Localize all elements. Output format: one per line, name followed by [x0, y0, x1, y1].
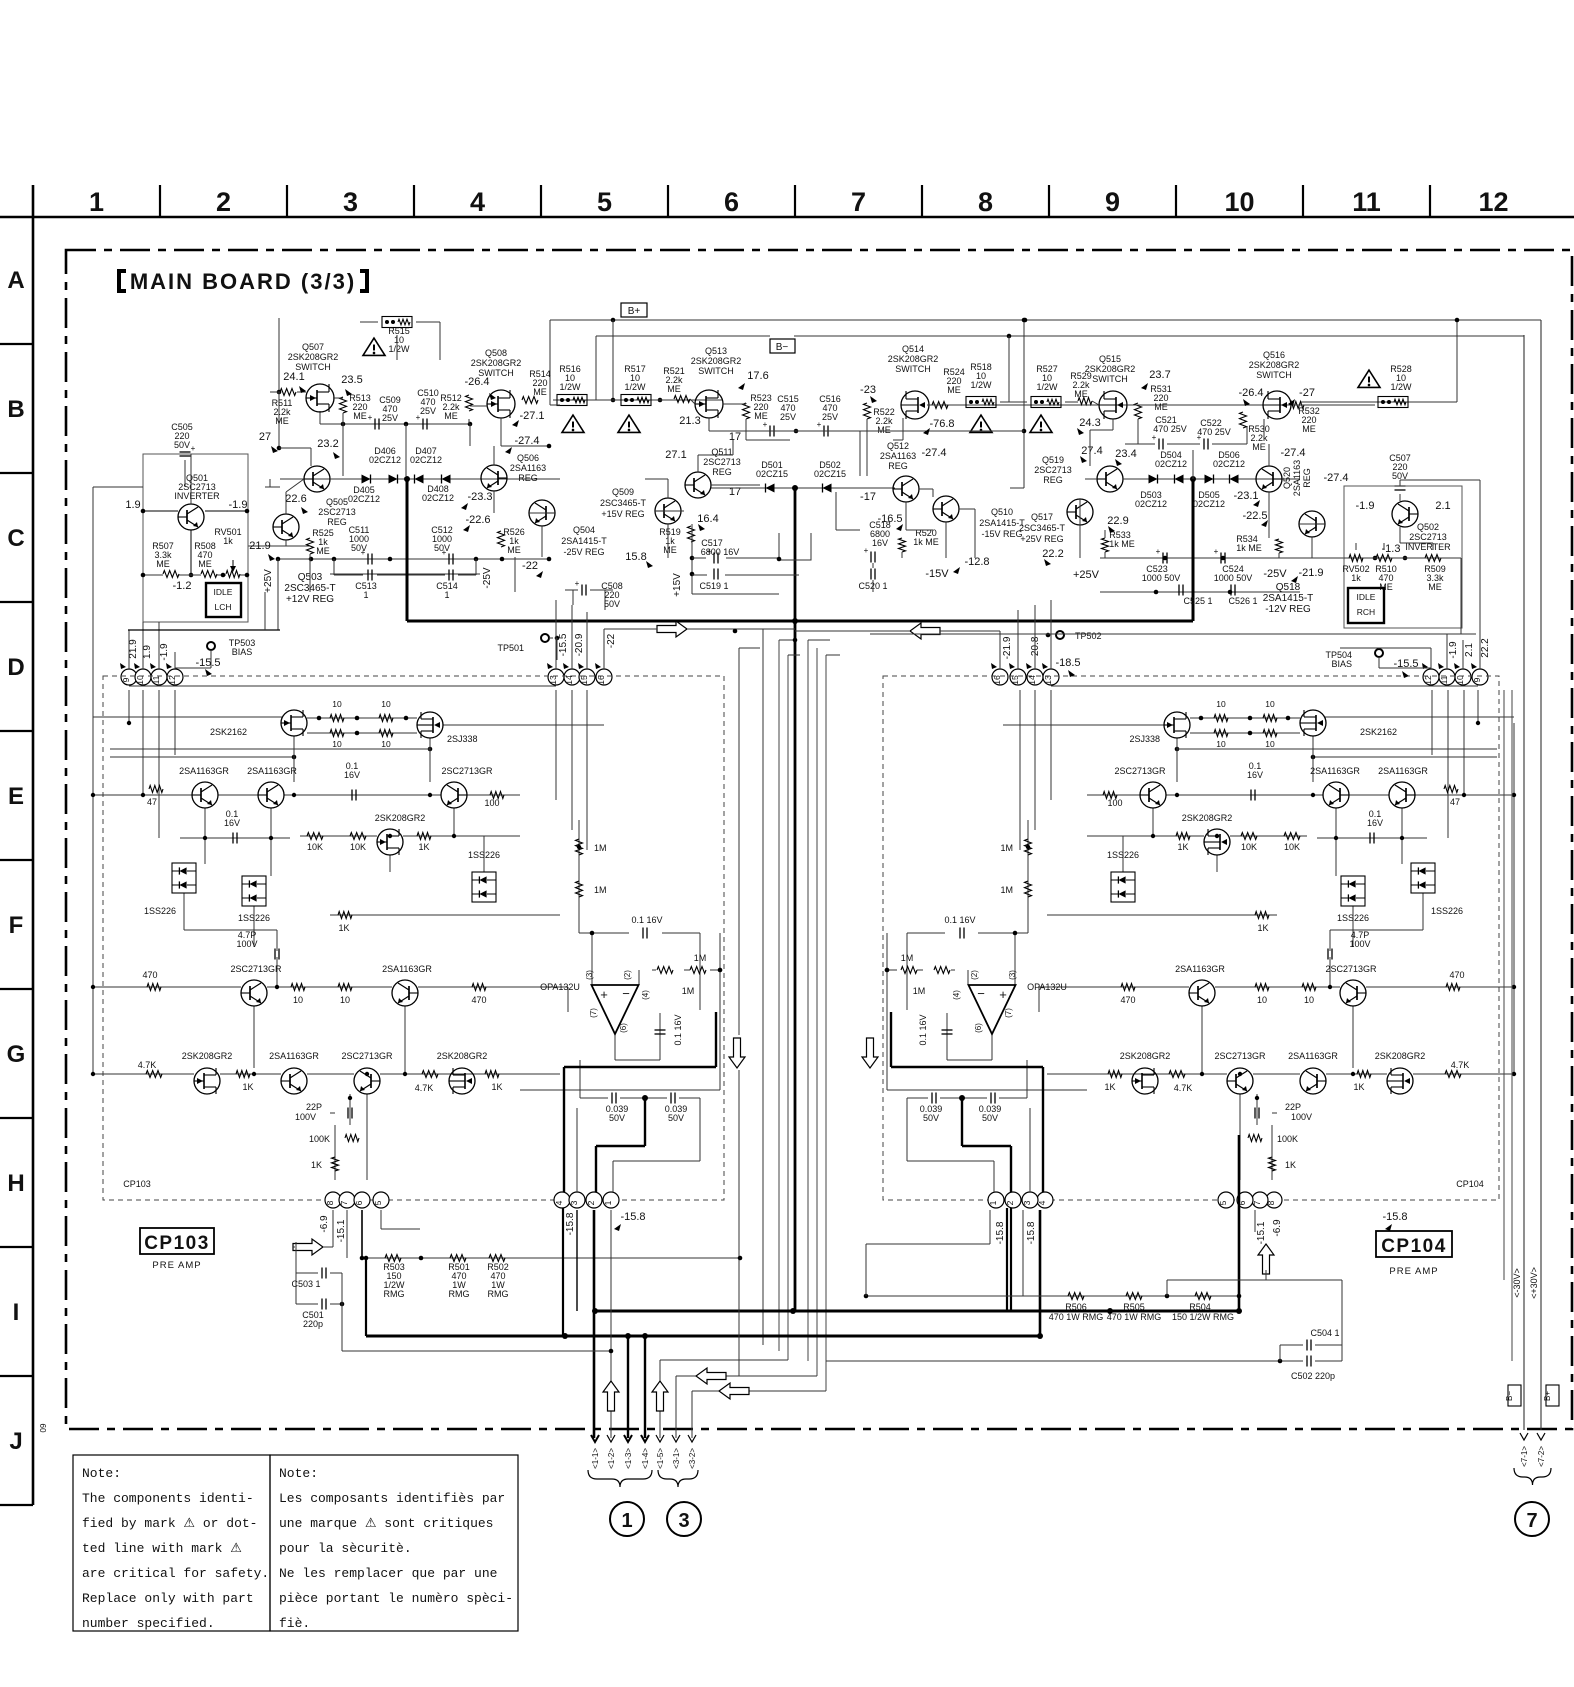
svg-text:1000 50V: 1000 50V	[1214, 573, 1253, 583]
transistor Q511	[625, 431, 741, 563]
svg-text:SWITCH: SWITCH	[895, 364, 931, 374]
transistor Q513	[691, 346, 769, 418]
wire thick mid rail	[407, 618, 1193, 624]
wire v x407 thick	[404, 476, 410, 621]
svg-text:1: 1	[603, 1200, 613, 1205]
svg-text:2SK208GR2: 2SK208GR2	[288, 352, 339, 362]
wire right fuse row	[1000, 401, 1099, 405]
label +30V	[1529, 1267, 1539, 1299]
label -30V	[1512, 1268, 1522, 1298]
resistor 1K mid	[338, 912, 352, 934]
svg-text:50V: 50V	[609, 1113, 625, 1123]
resistor r10b (R)	[1214, 699, 1228, 722]
wire thick 0039 jog L	[596, 1098, 645, 1192]
svg-text:4: 4	[554, 1200, 564, 1205]
svg-text:50V: 50V	[351, 543, 367, 553]
svg-text:2SK208GR2: 2SK208GR2	[1120, 1051, 1171, 1061]
potentiometer RV501	[214, 527, 241, 578]
mosfet 2SK208GR2 top	[375, 813, 426, 855]
svg-text:2SJ338: 2SJ338	[1129, 734, 1160, 744]
svg-text:-27: -27	[1299, 387, 1315, 399]
wire q505 links	[286, 479, 336, 592]
resistor R510	[1375, 555, 1397, 593]
connector CP104 pins 8-5	[1218, 1192, 1282, 1208]
wire center loop box	[779, 533, 811, 560]
resistor R504	[1172, 1293, 1234, 1323]
svg-text:1SS226: 1SS226	[144, 906, 176, 916]
wire arrow rail left	[604, 628, 795, 630]
svg-text:REG: REG	[1043, 475, 1063, 485]
capacitor C525	[1179, 585, 1213, 607]
resistor 10 f	[338, 984, 352, 1006]
row ruler letters A-J	[7, 267, 26, 1455]
svg-text:R504: R504	[1189, 1302, 1211, 1312]
label CP104 small	[1456, 1179, 1484, 1189]
svg-text:22.2: 22.2	[1480, 638, 1491, 658]
fusible resistor R517	[621, 364, 651, 406]
svg-text:A: A	[7, 267, 24, 294]
svg-text:TP502: TP502	[1075, 631, 1102, 641]
svg-text:ME: ME	[353, 411, 367, 421]
label CP103 box	[140, 1228, 214, 1271]
svg-text:PRE AMP: PRE AMP	[1389, 1266, 1438, 1277]
svg-text:2SC2713: 2SC2713	[703, 457, 741, 467]
box IDLE RCH	[1348, 588, 1384, 623]
wire thick v366	[365, 1258, 367, 1336]
wire right q514 gate	[893, 405, 940, 440]
label -25V r	[1263, 568, 1287, 580]
wire v x1193 thick	[1190, 476, 1196, 621]
svg-text:-18.5: -18.5	[1055, 657, 1080, 669]
wire thick v1007	[1006, 1208, 1008, 1311]
svg-text:+: +	[1152, 433, 1157, 442]
svg-text:0.1 16V: 0.1 16V	[631, 915, 662, 925]
wire pin7 drop	[346, 1210, 348, 1258]
transistor Q505a	[304, 466, 330, 492]
capacitor 22P 100V (R)	[1255, 1102, 1312, 1122]
svg-text:are critical for safety.: are critical for safety.	[82, 1566, 269, 1581]
wire 0.039 rail (R)	[907, 1060, 1027, 1101]
label -21.9 r	[1298, 567, 1323, 579]
wire thick v1040	[1037, 1210, 1043, 1339]
wire top rail right switch row	[940, 404, 1300, 406]
svg-text:470: 470	[471, 995, 486, 1005]
wire low resistor rail	[364, 1256, 743, 1261]
svg-text:0.1 16V: 0.1 16V	[944, 915, 975, 925]
svg-text:25V: 25V	[382, 413, 398, 423]
svg-text:1K: 1K	[338, 923, 349, 933]
svg-text:REG: REG	[327, 517, 347, 527]
svg-text:-22.6: -22.6	[465, 514, 490, 526]
wire bus v2	[762, 629, 764, 1345]
wire thin 0039 jog R	[907, 1098, 994, 1192]
mosfet 2SJ338	[417, 712, 478, 744]
resistor R533	[1102, 530, 1135, 552]
wire thick opamp jog L	[563, 1012, 716, 1336]
svg-text:02CZ15: 02CZ15	[814, 469, 846, 479]
row ruler ticks	[0, 344, 33, 1505]
svg-text:17.6: 17.6	[747, 370, 768, 382]
border frame left ruler line	[32, 185, 35, 1505]
resistor R505	[1107, 1293, 1162, 1323]
label 21.9 v	[128, 639, 139, 659]
svg-text:-26.4: -26.4	[1238, 387, 1263, 399]
svg-text:5: 5	[373, 1200, 383, 1205]
svg-text:2SA1163: 2SA1163	[510, 463, 546, 473]
transistor Q507	[283, 342, 362, 412]
svg-text:2SC2713: 2SC2713	[1409, 532, 1447, 542]
svg-text:R505: R505	[1123, 1302, 1145, 1312]
capacitor C524	[1214, 547, 1253, 583]
svg-text:Q512: Q512	[887, 441, 909, 451]
svg-text:1K: 1K	[491, 1082, 502, 1092]
svg-text:+12V REG: +12V REG	[286, 594, 334, 605]
transistor Q518a	[1242, 510, 1325, 537]
svg-text:4: 4	[470, 187, 485, 217]
svg-text:50V: 50V	[923, 1113, 939, 1123]
resistor R524	[932, 367, 965, 409]
label -22 v	[606, 633, 617, 648]
connector CP103 pins 9-12	[120, 663, 183, 685]
svg-text:1: 1	[363, 590, 368, 600]
capacitor C517	[701, 538, 740, 564]
capacitor 0.039 50V a (R)	[979, 1093, 1002, 1124]
resistor 10 e (R)	[1302, 984, 1316, 1006]
svg-text:22P: 22P	[1285, 1102, 1301, 1112]
diode D406	[362, 446, 402, 484]
diode D405	[348, 475, 424, 505]
svg-text:3: 3	[569, 1200, 579, 1205]
wire right cap521 row	[1125, 444, 1247, 479]
node B- bottom	[1505, 1385, 1521, 1406]
wire right q516 net	[1247, 318, 1459, 444]
svg-text:<7-2>: <7-2>	[1537, 1446, 1546, 1467]
wire right edge v1	[1503, 690, 1505, 1280]
brace group1	[588, 1470, 652, 1487]
label 22.2	[1042, 548, 1063, 560]
connector CP104 pins 4-1	[988, 1192, 1053, 1208]
svg-text:2.1: 2.1	[1464, 643, 1475, 657]
connector CP103 pins 13-16	[547, 663, 612, 685]
svg-text:100V: 100V	[236, 939, 257, 949]
note box frame	[73, 1455, 518, 1631]
svg-text:number specified.: number specified.	[82, 1616, 215, 1631]
connector CP103 pins 4-1	[554, 1192, 619, 1208]
wire bus v4	[787, 655, 789, 1360]
wire r513 col	[342, 413, 344, 476]
svg-text:50V: 50V	[174, 440, 190, 450]
resistor r10d	[379, 730, 393, 750]
wire supply rail right	[1100, 590, 1300, 595]
inverter block box R	[1344, 486, 1462, 628]
svg-text:02CZ12: 02CZ12	[369, 455, 401, 465]
svg-text:-15.8: -15.8	[620, 1211, 645, 1223]
resistor 1K mid (R)	[1255, 912, 1269, 934]
connector CP103 pins 8-5	[325, 1192, 389, 1208]
svg-text:OPA132U: OPA132U	[540, 982, 580, 992]
resistor 100	[484, 792, 504, 809]
wire c501 loop	[296, 1242, 342, 1304]
labels feet 7-x	[1520, 1446, 1546, 1467]
svg-text:B: B	[7, 396, 24, 423]
box IDLE LCH	[206, 583, 241, 617]
wire q507 gate stub	[297, 391, 306, 393]
svg-text:10: 10	[381, 739, 391, 749]
label +25V r	[1073, 569, 1100, 581]
svg-text:-15V REG: -15V REG	[981, 529, 1022, 539]
svg-text:SWITCH: SWITCH	[698, 366, 734, 376]
label -25V	[482, 567, 493, 588]
svg-text:50V: 50V	[668, 1113, 684, 1123]
node B+	[621, 303, 647, 317]
wire r512 col	[469, 406, 488, 424]
resistor 1M v1	[576, 839, 607, 855]
wire v381	[381, 1210, 420, 1229]
mosfet 2SK208GR2 low a	[182, 1051, 233, 1094]
label 22.6	[285, 493, 306, 505]
wire thick bus y1311	[592, 1308, 1240, 1314]
svg-text:Q510: Q510	[991, 507, 1013, 517]
svg-text:10K: 10K	[307, 842, 323, 852]
svg-text:8: 8	[325, 1200, 335, 1205]
wire r515 drop	[360, 322, 440, 360]
svg-text:150 1/2W RMG: 150 1/2W RMG	[1172, 1312, 1234, 1322]
svg-text:+15V REG: +15V REG	[601, 509, 644, 519]
label Q503 regulator	[284, 572, 335, 605]
arrow down left	[729, 1038, 745, 1068]
svg-text:16V: 16V	[344, 770, 360, 780]
warning mark W3	[618, 415, 640, 432]
op-amp OPA132U	[540, 970, 650, 1034]
resistor R529	[1070, 371, 1092, 405]
label -15.8 R	[1382, 1211, 1407, 1223]
note text french	[279, 1466, 513, 1631]
svg-text:1K: 1K	[242, 1082, 253, 1092]
svg-text:2SA1163GR: 2SA1163GR	[1175, 964, 1225, 974]
resistor 470 a	[142, 970, 161, 991]
fusible resistor R528	[1378, 364, 1412, 408]
resistor 1K top	[417, 833, 431, 853]
svg-text:2SC2713GR: 2SC2713GR	[230, 964, 282, 974]
resistor 1K low a (R)	[1353, 1071, 1371, 1093]
transistor Q508	[464, 348, 544, 447]
label CP104 box	[1376, 1231, 1452, 1277]
svg-text:1: 1	[444, 590, 449, 600]
svg-text:47: 47	[147, 797, 157, 807]
svg-text:02CZ12: 02CZ12	[1213, 459, 1245, 469]
svg-text:RCH: RCH	[1357, 607, 1375, 617]
svg-text:12: 12	[1478, 187, 1508, 217]
note text english	[82, 1466, 269, 1631]
warning mark W6	[1358, 370, 1380, 387]
svg-text:-25V REG: -25V REG	[563, 547, 604, 557]
svg-text:-6.9: -6.9	[1272, 1219, 1283, 1237]
capacitor 22P 100V	[295, 1102, 352, 1122]
svg-text:+: +	[575, 579, 580, 588]
wire q504 links	[515, 526, 542, 592]
svg-text:2SK208GR2: 2SK208GR2	[1375, 1051, 1426, 1061]
label -15V	[925, 568, 949, 580]
wire c517 col	[690, 524, 799, 594]
svg-text:+25V REG: +25V REG	[1020, 534, 1063, 544]
svg-text:R506: R506	[1065, 1302, 1087, 1312]
svg-text:C526 1: C526 1	[1228, 596, 1257, 606]
svg-text:1M: 1M	[1000, 885, 1013, 895]
svg-text:5: 5	[1218, 1200, 1228, 1205]
svg-text:2SC2713GR: 2SC2713GR	[341, 1051, 393, 1061]
resistor R519	[659, 526, 694, 555]
wire top rail right fuse	[1300, 401, 1420, 403]
svg-text:16.4: 16.4	[697, 513, 718, 525]
dual diode 1SS226 a (R)	[1411, 863, 1463, 916]
svg-text:2: 2	[1005, 1200, 1015, 1205]
resistor 1M v2	[576, 881, 607, 897]
capacitor C504	[1280, 1328, 1342, 1351]
wire right q519 net	[1080, 479, 1147, 558]
svg-text:1.9: 1.9	[125, 499, 140, 511]
wire diode row left	[280, 478, 560, 480]
svg-text:16V: 16V	[224, 818, 240, 828]
svg-text:2SA1415-T: 2SA1415-T	[561, 536, 607, 546]
svg-text:-27.4: -27.4	[921, 447, 946, 459]
svg-text:1SS226: 1SS226	[238, 913, 270, 923]
diode D502	[814, 460, 846, 493]
wire cap row rail left	[276, 557, 552, 562]
svg-text:Q519: Q519	[1042, 455, 1064, 465]
transistor 2SA1163GR b	[247, 766, 297, 808]
svg-text:2SK2162: 2SK2162	[1360, 727, 1397, 737]
sheet number 09	[39, 1423, 48, 1432]
resistor r10a (R)	[1263, 699, 1277, 722]
svg-text:1K: 1K	[1177, 842, 1188, 852]
svg-text:SWITCH: SWITCH	[1256, 370, 1292, 380]
svg-text:-15.5: -15.5	[558, 633, 569, 656]
svg-text:B+: B+	[628, 306, 641, 317]
svg-text:-23.3: -23.3	[467, 491, 492, 503]
svg-text:Q502: Q502	[1417, 522, 1439, 532]
label -15.5 v	[558, 633, 569, 656]
wire right q510 net	[873, 509, 975, 592]
svg-text:21.9: 21.9	[249, 540, 270, 552]
svg-text:1: 1	[621, 1510, 632, 1532]
svg-text:ted line with mark ⚠: ted line with mark ⚠	[82, 1541, 242, 1556]
svg-text:Ne les remplacer que par une: Ne les remplacer que par une	[279, 1566, 497, 1581]
label -21.9 v2	[1002, 636, 1013, 659]
svg-text:21.3: 21.3	[679, 415, 700, 427]
svg-text:6: 6	[354, 1200, 364, 1205]
mosfet 2SK2162 (R)	[1300, 710, 1397, 737]
brace group7	[1514, 1468, 1551, 1485]
svg-text:4.7K: 4.7K	[415, 1083, 434, 1093]
test point TP504	[1325, 649, 1418, 670]
svg-text:50V: 50V	[982, 1113, 998, 1123]
wire top feed B- left	[1009, 318, 1026, 488]
svg-text:2SK2162: 2SK2162	[210, 727, 247, 737]
svg-text:470: 470	[142, 970, 157, 980]
svg-text:1000 50V: 1000 50V	[1142, 573, 1181, 583]
transistor 2SA1163GR a (R)	[1378, 766, 1428, 808]
svg-text:7: 7	[339, 1200, 349, 1205]
svg-text:ME: ME	[316, 546, 330, 556]
resistor 1K low b	[485, 1071, 503, 1093]
fusible resistor R515	[382, 317, 412, 355]
svg-text:(2): (2)	[970, 970, 979, 980]
resistor R532	[1290, 402, 1320, 435]
wire inv1 col	[141, 454, 250, 577]
resistor 10 f (R)	[1255, 984, 1269, 1006]
wire q507 feed col	[277, 318, 311, 466]
svg-text:6800 16V: 6800 16V	[701, 547, 740, 557]
svg-text:10: 10	[381, 699, 391, 709]
wire thick bus y1336	[366, 1333, 1040, 1339]
svg-text:21.9: 21.9	[128, 639, 139, 659]
svg-text:2SK208GR2: 2SK208GR2	[437, 1051, 488, 1061]
resistor r10b	[379, 699, 393, 722]
svg-text:23.2: 23.2	[317, 438, 338, 450]
wire top rail fuse row	[553, 399, 723, 401]
svg-text:50V: 50V	[434, 543, 450, 553]
transistor Q519	[1034, 455, 1123, 492]
svg-text:22.9: 22.9	[1107, 515, 1128, 527]
wire bus v5	[807, 640, 809, 1361]
svg-text:100: 100	[484, 798, 499, 808]
svg-text:1/2W: 1/2W	[970, 380, 992, 390]
svg-text:2SA1163: 2SA1163	[880, 451, 916, 461]
capacitor C507	[1389, 453, 1411, 490]
svg-text:1/2W: 1/2W	[559, 382, 581, 392]
svg-text:2SA1163GR: 2SA1163GR	[382, 964, 432, 974]
svg-text:(6): (6)	[974, 1023, 983, 1033]
svg-text:Q506: Q506	[517, 453, 539, 463]
capacitor C512	[431, 525, 453, 565]
svg-text:-15.1: -15.1	[1256, 1221, 1267, 1244]
svg-text:10: 10	[332, 699, 342, 709]
resistor r10c (R)	[1263, 730, 1277, 750]
circled 1	[610, 1502, 644, 1536]
svg-text:470 25V: 470 25V	[1197, 427, 1231, 437]
transistor 2SA1163GR low2	[269, 1051, 319, 1094]
capacitor C508	[575, 579, 623, 609]
svg-text:pièce portant le numèro spèci-: pièce portant le numèro spèci-	[279, 1591, 513, 1606]
wire TP504 link	[1379, 657, 1431, 668]
svg-text:CP103: CP103	[144, 1233, 210, 1254]
svg-text:100V: 100V	[1349, 939, 1370, 949]
svg-text:fiè.: fiè.	[279, 1616, 310, 1631]
svg-text:7: 7	[1526, 1510, 1537, 1532]
wire b plus drop2	[550, 404, 560, 406]
svg-text:4.7K: 4.7K	[1174, 1083, 1193, 1093]
wire cap row y424	[320, 411, 472, 476]
label -1.9 v2	[1448, 641, 1459, 659]
wire thick v362	[360, 1210, 365, 1260]
svg-text:9: 9	[121, 677, 131, 682]
transistor 2SA1163GR low (R)	[1175, 964, 1225, 1006]
wire thick mid bus drop	[794, 488, 797, 1311]
resistor 100 (R)	[1103, 792, 1123, 809]
arrow left foot32	[719, 1383, 749, 1399]
svg-text:7: 7	[851, 187, 866, 217]
diode D503h	[1135, 475, 1214, 510]
capacitor C515	[763, 394, 799, 437]
label -15.8 L	[620, 1211, 645, 1223]
wire right d502 col	[836, 492, 860, 530]
transistor 2SA1163GR a	[179, 766, 229, 808]
capacitor 0.1 16V fb (R)	[918, 1014, 953, 1045]
transistor 2SC2713GR low	[230, 964, 282, 1006]
svg-text:ME: ME	[275, 416, 289, 426]
svg-text:1M: 1M	[694, 953, 707, 963]
svg-text:220p: 220p	[303, 1319, 323, 1329]
